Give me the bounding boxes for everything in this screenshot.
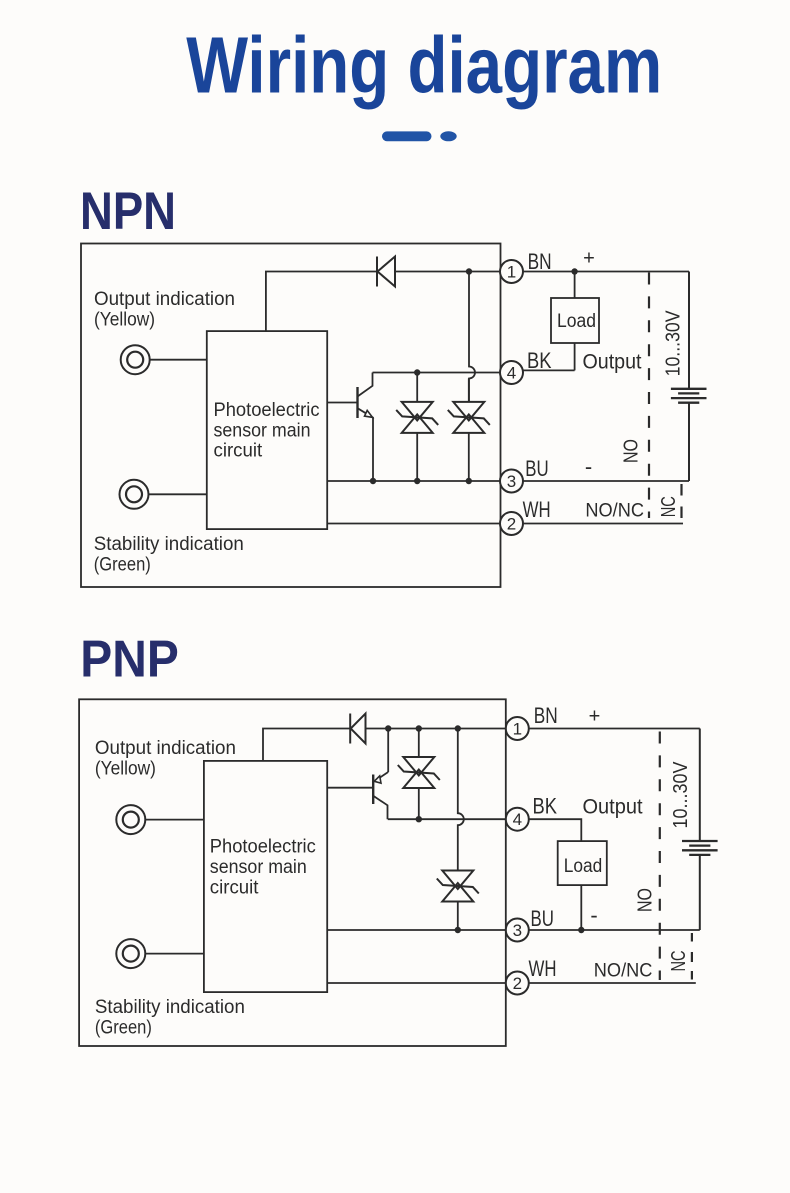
PNP BU rail inside box xyxy=(327,929,506,931)
NPN terminal 3 (BU) xyxy=(500,470,523,493)
svg-text:+: + xyxy=(589,706,601,728)
PNP wire diode to terminal 1 xyxy=(366,728,507,730)
NPN wire battery to BU xyxy=(688,403,690,481)
NPN outer enclosure box xyxy=(81,244,501,588)
NPN wire BN down to battery xyxy=(688,272,690,389)
NPN junction node on BN line xyxy=(466,268,472,274)
NPN zener TVS Z2 xyxy=(448,402,490,433)
svg-text:BK: BK xyxy=(533,794,558,819)
svg-text:1: 1 xyxy=(513,720,522,739)
NPN BU rail (0V) inside box xyxy=(327,480,500,482)
PNP terminal 2 (WH) xyxy=(506,972,529,995)
PNP zener TVS Z1 xyxy=(398,757,440,788)
NPN collector rail to terminal 4 xyxy=(373,372,501,374)
svg-text:-: - xyxy=(590,903,597,928)
NPN stability indication LED (green) xyxy=(120,480,149,509)
PNP transistor emitter arrowhead xyxy=(374,776,381,783)
PNP BN supply wire (+) xyxy=(529,728,700,730)
NPN junction node collector/zener1 xyxy=(414,369,420,375)
PNP terminal 3 (BU) xyxy=(506,919,529,942)
PNP wire LED1 to circuit box xyxy=(146,819,204,821)
svg-text:PNP: PNP xyxy=(80,631,179,689)
PNP dashed segment NC right xyxy=(691,933,693,980)
svg-text:BN: BN xyxy=(534,703,558,728)
svg-text:NO: NO xyxy=(634,888,656,912)
svg-text:BK: BK xyxy=(527,348,552,373)
PNP outer enclosure box xyxy=(79,699,506,1046)
NPN node Z1 on BU rail xyxy=(414,478,420,484)
svg-text:Photoelectric: Photoelectric xyxy=(210,837,316,858)
svg-text:BU: BU xyxy=(531,906,554,931)
PNP collector rail to terminal 4 xyxy=(388,818,506,820)
svg-text:Photoelectric: Photoelectric xyxy=(214,400,320,421)
svg-text:Load: Load xyxy=(557,311,596,332)
svg-text:circuit: circuit xyxy=(214,440,263,461)
svg-text:(Green): (Green) xyxy=(95,1017,152,1038)
PNP wire battery to BU xyxy=(699,855,701,930)
NPN wire load to BK xyxy=(574,343,576,370)
NPN node Z2 on BU rail xyxy=(466,478,472,484)
NPN terminal 1 (BN) xyxy=(500,260,523,283)
svg-text:BU: BU xyxy=(525,456,548,481)
svg-text:Stability indication: Stability indication xyxy=(95,997,245,1018)
PNP battery 10...30V xyxy=(682,841,718,855)
svg-text:3: 3 xyxy=(507,472,516,491)
svg-text:sensor main: sensor main xyxy=(210,857,307,878)
PNP wire load to BU xyxy=(580,885,582,930)
NPN wire circuit box top to diode xyxy=(266,272,377,332)
svg-text:Output: Output xyxy=(583,350,642,373)
NPN dashed segment NC right xyxy=(680,484,682,518)
svg-text:NPN: NPN xyxy=(80,182,176,241)
NPN terminal 4 (BK) xyxy=(500,361,523,384)
NPN wire Z2 top lead xyxy=(468,379,470,402)
NPN zener TVS Z1 xyxy=(396,402,438,433)
PNP reverse-protection diode D1 xyxy=(350,714,365,744)
NPN WH wire inside box xyxy=(327,523,500,525)
svg-text:Wiring diagram: Wiring diagram xyxy=(186,21,662,110)
NPN output indication LED (yellow) xyxy=(121,345,150,374)
PNP load box xyxy=(558,841,607,885)
NPN wire BN node down with hop over collector line xyxy=(469,272,475,402)
PNP wire BN down to battery xyxy=(699,729,701,842)
NPN terminal 2 (WH) xyxy=(500,512,523,535)
svg-text:NO: NO xyxy=(621,439,643,463)
PNP BU supply wire (-) xyxy=(529,929,700,931)
PNP stability indication LED (green) xyxy=(116,939,145,968)
NPN wire Z2 bottom lead xyxy=(468,433,470,481)
svg-text:NO/NC: NO/NC xyxy=(594,961,653,982)
PNP junction node collector/Z1 on BK line xyxy=(416,816,422,822)
NPN BU supply wire (-) xyxy=(523,480,689,482)
NPN wire Z1 top lead xyxy=(416,373,418,402)
PNP wire LED2 to circuit box xyxy=(146,953,204,955)
svg-text:-: - xyxy=(585,454,592,479)
NPN NO/NC boundary dashed line xyxy=(648,273,650,519)
PNP node Z2 on BU rail xyxy=(455,927,461,933)
NPN BN supply wire (+) xyxy=(523,271,689,273)
svg-text:1: 1 xyxy=(507,263,516,282)
svg-text:Output: Output xyxy=(583,796,643,819)
NPN photoelectric sensor main circuit box xyxy=(207,331,327,529)
NPN wire Z1 bottom lead xyxy=(416,433,418,481)
PNP wire Z2 bottom lead xyxy=(457,902,459,931)
svg-text:sensor main: sensor main xyxy=(214,420,311,441)
NPN node emitter on BU rail xyxy=(370,478,376,484)
svg-text:BN: BN xyxy=(528,249,552,274)
PNP wire circuit box top to diode xyxy=(263,729,350,761)
svg-text:+: + xyxy=(583,248,595,270)
svg-text:2: 2 xyxy=(513,974,522,993)
svg-text:Stability indication: Stability indication xyxy=(94,534,244,555)
NPN junction node load tap xyxy=(571,268,577,274)
PNP photoelectric sensor main circuit box xyxy=(204,761,327,992)
PNP transistor Q1 (PNP) xyxy=(372,775,374,805)
NPN wire diode to terminal 1 xyxy=(395,271,500,273)
svg-text:4: 4 xyxy=(513,810,522,829)
PNP WH select wire xyxy=(529,982,696,984)
svg-text:WH: WH xyxy=(523,497,551,522)
PNP WH wire inside box xyxy=(327,982,506,984)
PNP terminal 4 (BK) xyxy=(506,808,529,831)
NPN wire LED2 to circuit box xyxy=(149,493,207,495)
svg-text:2: 2 xyxy=(507,515,516,534)
PNP NO/NC boundary dashed line xyxy=(659,732,661,981)
svg-text:WH: WH xyxy=(529,956,557,981)
PNP output indication LED (yellow) xyxy=(116,805,145,834)
PNP node Z1 tap on BN xyxy=(416,725,422,731)
NPN battery 10...30V xyxy=(671,389,707,403)
PNP BK output wire to load xyxy=(529,819,582,841)
NPN transistor emitter arrowhead xyxy=(365,410,373,417)
svg-text:NO/NC: NO/NC xyxy=(585,501,644,522)
PNP node Z2 tap on BN xyxy=(455,725,461,731)
svg-text:(Green): (Green) xyxy=(94,555,151,576)
PNP wire Z2 from BN with hop over BK line xyxy=(458,729,464,871)
svg-text:Output indication: Output indication xyxy=(94,289,235,310)
svg-text:circuit: circuit xyxy=(210,877,259,898)
title underline dot xyxy=(440,131,456,141)
svg-text:4: 4 xyxy=(507,364,516,383)
svg-text:NC: NC xyxy=(658,496,680,517)
svg-text:3: 3 xyxy=(513,921,522,940)
svg-text:10...30V: 10...30V xyxy=(670,761,692,829)
PNP wire Z1 top lead xyxy=(418,729,420,758)
svg-text:(Yellow): (Yellow) xyxy=(95,759,156,780)
NPN BK output wire xyxy=(523,369,575,371)
svg-text:10...30V: 10...30V xyxy=(662,310,684,377)
NPN reverse-protection diode D1 xyxy=(377,257,395,287)
svg-text:Output indication: Output indication xyxy=(95,738,236,759)
NPN wire LED1 to circuit box xyxy=(150,359,207,361)
NPN wire BN to load xyxy=(574,272,576,299)
NPN WH select wire xyxy=(524,523,684,525)
svg-text:NC: NC xyxy=(668,951,690,972)
PNP node emitter tap on BN xyxy=(385,725,391,731)
PNP node load on BU rail xyxy=(578,927,584,933)
NPN load box xyxy=(551,298,599,343)
PNP terminal 1 (BN) xyxy=(506,717,529,740)
svg-text:Load: Load xyxy=(564,856,603,877)
PNP zener TVS Z2 xyxy=(437,871,479,902)
NPN transistor Q1 (NPN) xyxy=(356,387,358,418)
title underline dash xyxy=(382,131,432,141)
svg-text:(Yellow): (Yellow) xyxy=(94,310,155,331)
PNP wire Z1 bottom lead xyxy=(418,788,420,819)
